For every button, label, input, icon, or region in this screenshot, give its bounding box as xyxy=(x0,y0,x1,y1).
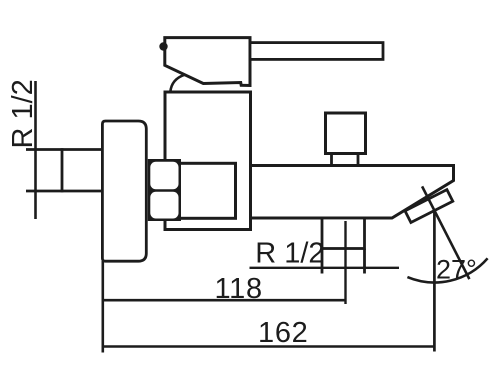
svg-text:R 1/2: R 1/2 xyxy=(255,238,324,270)
svg-text:162: 162 xyxy=(258,317,309,349)
diverter knob xyxy=(326,113,366,154)
spout body bar xyxy=(251,166,454,219)
left extension line xyxy=(102,261,105,353)
R 1/2 underline xyxy=(250,267,400,269)
svg-text:27°: 27° xyxy=(436,255,477,285)
handle fillet arc xyxy=(170,75,184,92)
outlet centerline xyxy=(344,221,346,304)
handle body xyxy=(165,38,250,86)
handle screw dot xyxy=(159,42,167,50)
vertical reference line xyxy=(433,211,436,352)
hex nut xyxy=(148,159,181,221)
dim line 118 xyxy=(102,299,346,302)
knob neck xyxy=(332,154,359,167)
27 deg leg xyxy=(422,186,469,279)
outlet extension lines xyxy=(322,249,365,274)
escutcheon xyxy=(102,121,146,261)
dim line 162 xyxy=(102,345,435,348)
wall pipe xyxy=(26,148,103,192)
coupling xyxy=(152,163,236,218)
lever bar xyxy=(250,43,383,60)
shower outlet xyxy=(322,218,365,249)
svg-text:R 1/2: R 1/2 xyxy=(7,79,39,148)
column valve body xyxy=(165,92,251,230)
svg-text:118: 118 xyxy=(215,273,263,305)
spout angled outlet xyxy=(405,190,453,223)
wall line xyxy=(34,81,37,219)
angle arc xyxy=(407,258,487,282)
